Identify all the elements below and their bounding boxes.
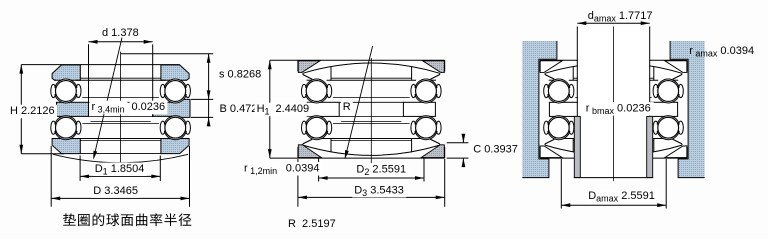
label H 2.2126 (8, 105, 57, 119)
cage rail row2a (91, 121, 151, 123)
raceway arcs ball right row 2 (164, 117, 186, 139)
bottom washer right chamfer (673, 139, 682, 144)
centerline right figure (613, 27, 615, 182)
centerline left figure (120, 52, 122, 177)
D3 extension line left (297, 159, 299, 207)
cage pocket ball left row 1 (51, 84, 56, 97)
cage pocket ball left row 1 (302, 84, 307, 97)
top washer left edge (302, 73, 304, 74)
top washer bottom face mid (569, 79, 658, 81)
cage pocket ball right row 2 (411, 121, 416, 134)
ball right row 1 (416, 81, 437, 102)
top seat washer fill left (298, 61, 320, 73)
ball left row 1 (56, 81, 77, 102)
D3 dimension line (298, 196, 445, 198)
raceway rail r2a (573, 140, 654, 142)
svg-text:s 0.8268: s 0.8268 (219, 69, 261, 81)
middle washer top edge mid (581, 101, 645, 103)
sleeve left (574, 116, 580, 177)
sleeve right (647, 116, 653, 177)
sphered bottom washer body (303, 139, 440, 156)
bottom washer right edge (681, 144, 683, 145)
svg-text:R 2.5197: R 2.5197 (288, 218, 336, 230)
top seat washer right edge (444, 60, 446, 71)
left figure group open (8, 27, 261, 226)
label D 3.3465 (91, 184, 140, 198)
svg-text:d 1.378: d 1.378 (102, 27, 139, 39)
bottom washer right edge (439, 144, 441, 145)
raceway arcs ball left row 1 (55, 80, 77, 102)
bottom washer bore edge left (572, 139, 574, 153)
top washer left chamfer (303, 75, 312, 80)
middle washer top edge mid (89, 101, 153, 103)
D1 dimension line (80, 175, 160, 177)
top washer bottom face left (549, 79, 555, 81)
top washer section right (161, 65, 189, 80)
D extension line left (50, 146, 52, 207)
leader line to sphere surface (94, 38, 122, 158)
ball left row 1 (548, 81, 569, 102)
cage rail row1 (333, 97, 410, 99)
label 0.0394 mid (284, 162, 322, 176)
top washer bottom face left (307, 79, 313, 81)
bottom washer bore edge right (411, 139, 413, 153)
top washer left edge (544, 73, 546, 74)
middle washer bottom edge mid (89, 115, 153, 117)
middle washer bottom edge mid (581, 115, 645, 117)
label R (341, 101, 353, 115)
right figure group open (522, 10, 754, 208)
cage rail row2a (341, 121, 401, 123)
H dimension line (20, 65, 22, 154)
raceway arcs ball left row 1 (548, 80, 570, 102)
cage pocket ball right row 1 (160, 84, 165, 97)
housing block right (670, 41, 705, 178)
middle figure group open (242, 46, 518, 230)
B bottom extension line (191, 116, 213, 118)
svg-text:0.0394: 0.0394 (286, 163, 320, 175)
bottom washer left edge (544, 144, 546, 145)
bottom washer left chamfer (303, 139, 312, 144)
svg-text:H 2.2126: H 2.2126 (10, 105, 55, 117)
ball right row 2 (658, 117, 679, 138)
cage rail row1 (82, 97, 159, 99)
bottom seat washer r fig (540, 146, 562, 158)
middle washer top edge mid (339, 101, 403, 103)
leader line to sphere R (345, 46, 372, 158)
cage pocket ball right row 2 (160, 121, 165, 134)
C dimension line (462, 135, 464, 143)
svg-text:R: R (343, 101, 351, 113)
bottom seat washer left edge (297, 147, 299, 158)
raceway arcs ball left row 2 (55, 117, 77, 139)
svg-text:B 0.472: B 0.472 (220, 103, 258, 115)
D extension line right (189, 146, 191, 207)
raceway arcs ball left row 2 (548, 117, 570, 139)
top washer top face (21, 64, 179, 66)
top washer bore edge left (330, 67, 332, 81)
bottom washer top face (554, 138, 672, 140)
top washer section left (52, 65, 80, 80)
raceway rail r1a (573, 77, 654, 79)
middle washer section right (403, 102, 435, 116)
sphered top washer body (303, 63, 440, 80)
bottom washer bore edge right (653, 139, 655, 153)
raceway arcs ball right row 2 (657, 117, 679, 139)
label r1,2min (242, 162, 280, 176)
shaft bottom face (574, 177, 653, 179)
bottom washer section left (52, 139, 80, 154)
top washer left chamfer (545, 75, 554, 80)
bottom seat washer right edge (444, 147, 446, 158)
top washer bottom face right (430, 79, 436, 81)
H1 dimension line (269, 60, 271, 158)
bottom washer section right (161, 139, 189, 154)
bottom washer left chamfer (545, 139, 554, 144)
ball left row 1 (306, 81, 327, 102)
top washer bottom face mid (76, 79, 165, 81)
raceway arcs ball left row 2 (306, 117, 328, 139)
ball left row 2 (548, 117, 569, 138)
sphere arc top (545, 63, 682, 73)
label 0.0236 left (130, 101, 168, 115)
caption spherical-seat-radius (CJK) (63, 213, 76, 225)
top washer right edge (681, 73, 683, 74)
d extension line left (88, 44, 90, 117)
middle washer section left (549, 102, 581, 116)
cage pocket ball right row 1 (653, 84, 658, 97)
svg-text:D 3.3465: D 3.3465 (93, 185, 138, 197)
bottom seat washer fill right (421, 145, 444, 158)
d dimension line (89, 41, 153, 43)
sphered bottom washer body (545, 139, 682, 156)
bottom washer right chamfer (430, 139, 439, 144)
svg-text:0.0236: 0.0236 (132, 101, 166, 113)
top washer right chamfer (673, 75, 682, 80)
C top extension line (447, 142, 469, 144)
ball right row 1 (165, 81, 186, 102)
svg-text:2.4409: 2.4409 (276, 103, 310, 115)
cage pocket ball left row 2 (544, 121, 549, 134)
raceway arcs ball right row 1 (415, 80, 437, 102)
D dimension line (51, 197, 189, 199)
cage pocket ball left row 2 (302, 121, 307, 134)
D1 extension line left (79, 156, 81, 181)
middle washer section left (57, 102, 89, 116)
Damax extension line left (560, 159, 562, 209)
ball right row 2 (416, 117, 437, 138)
bottom washer bottom mid (80, 152, 161, 154)
bottom seat washer fill left (298, 145, 321, 158)
D2 extension line right (423, 159, 425, 182)
middle washer section right (646, 102, 678, 116)
top washer bottom face right (673, 79, 679, 81)
raceway rail r1a (331, 77, 412, 79)
raceway arcs ball right row 1 (657, 80, 679, 102)
middle washer bottom edge mid (339, 115, 403, 117)
Damax extension line right (665, 159, 667, 209)
housing block left (522, 41, 557, 178)
Damax dimension line (561, 204, 666, 206)
top washer bore edge right (411, 67, 413, 81)
raceway arcs ball left row 1 (306, 80, 328, 102)
top seat washer r fig (540, 61, 562, 73)
sphered top washer body (545, 63, 682, 80)
cage pocket ball right row 2 (653, 121, 658, 134)
sphere arc bottom (303, 145, 440, 155)
cage rail row2b (575, 123, 652, 125)
top washer right chamfer (430, 75, 439, 80)
raceway rail r2a (80, 140, 161, 142)
B top extension line (191, 98, 213, 100)
sphere arc bottom (53, 154, 188, 162)
raceway arcs ball right row 1 (164, 80, 186, 102)
centerline middle figure (370, 58, 372, 176)
raceway arcs ball right row 2 (415, 117, 437, 139)
s and B dimension line (208, 54, 210, 127)
svg-text:C 0.3937: C 0.3937 (473, 143, 518, 155)
D1 extension line right (159, 156, 161, 181)
middle washer section left (307, 102, 339, 116)
label r3,4min (90, 101, 128, 115)
raceway rail r2a (331, 140, 412, 142)
svg-text:D3​ 3.5433: D3​ 3.5433 (354, 184, 404, 198)
svg-text:D1​ 1.8504: D1​ 1.8504 (95, 163, 145, 177)
sphere arc top (303, 63, 440, 73)
top seat washer top face (270, 59, 445, 61)
d extension line right (152, 44, 154, 117)
svg-text:D2​ 2.5591: D2​ 2.5591 (356, 164, 406, 178)
cage pocket ball right row 1 (411, 84, 416, 97)
sphere arc bottom (545, 145, 682, 155)
bottom seat washer bottom face (270, 157, 445, 159)
top washer bottom face right (185, 79, 186, 81)
ball right row 1 (658, 81, 679, 102)
top seat washer fill right (423, 61, 445, 73)
cage pocket ball left row 1 (544, 84, 549, 97)
cage rail row2a (583, 121, 643, 123)
top seat washer left edge (297, 60, 299, 71)
ball left row 2 (306, 117, 327, 138)
label Damax 2.5591 (586, 190, 658, 204)
label 2.4409 (274, 103, 312, 117)
shaft body (covers bore region) (578, 27, 649, 178)
bottom washer bore edge left (330, 139, 332, 153)
bottom washer top face (62, 138, 180, 140)
damax dimension line (577, 22, 649, 24)
label rbmax 0.0236 (584, 102, 654, 116)
D2 dimension line (319, 177, 424, 179)
top washer bore edge right (653, 67, 655, 81)
H bottom extension line (21, 153, 64, 155)
label D1 1.8504 (93, 163, 147, 177)
bottom washer top face (312, 138, 430, 140)
cage rail row2b (82, 123, 159, 125)
ball left row 2 (56, 117, 77, 138)
top washer bore edge left (572, 67, 574, 81)
C bottom extension line (447, 157, 469, 159)
top washer bottom face mid (327, 79, 416, 81)
D2 extension line left (318, 159, 320, 182)
s top extension line (121, 53, 214, 55)
D3 extension line right (444, 159, 446, 207)
bottom washer left edge (302, 144, 304, 145)
cage rail row1 (575, 97, 652, 99)
ball right row 2 (165, 117, 186, 138)
cage rail row2b (333, 123, 410, 125)
middle washer section right (153, 99, 190, 117)
top washer right edge (439, 73, 441, 74)
label D2 2.5591 (354, 163, 408, 177)
top washer bottom face left (55, 79, 56, 81)
shaft left edge (576, 27, 578, 178)
cage pocket ball left row 2 (51, 121, 56, 134)
raceway rail r1a (80, 77, 161, 79)
shaft right edge (649, 27, 651, 178)
label H1 (255, 103, 272, 117)
label D3 3.5433 (352, 184, 406, 198)
